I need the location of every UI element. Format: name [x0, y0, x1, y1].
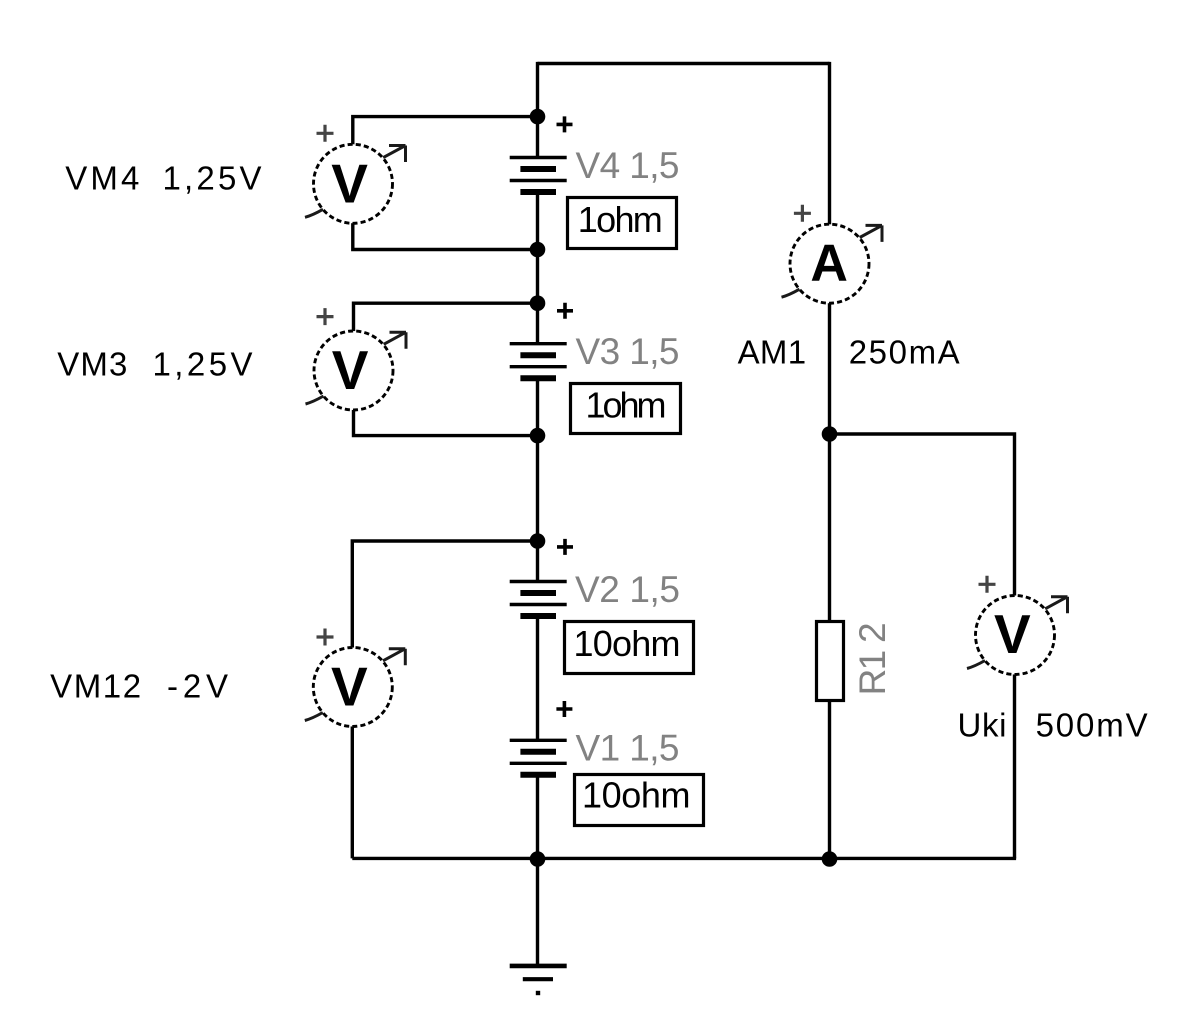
battery V3 plus polarity mark [557, 303, 573, 319]
wire Uki meter to bottom [1013, 670, 1016, 859]
battery V4 plus polarity mark [557, 116, 573, 132]
wire R1 to bottom [828, 700, 831, 859]
svg-text:AM1: AM1 [738, 334, 807, 371]
svg-text:-2V: -2V [167, 667, 228, 704]
svg-text:VM3: VM3 [57, 346, 127, 383]
svg-text:R1 2: R1 2 [852, 622, 893, 695]
junction node battery chain to bottom rail [530, 851, 546, 867]
svg-text:V: V [332, 339, 369, 401]
voltmeter VM12 [305, 629, 406, 727]
wire ammeter to R1 [828, 299, 831, 622]
resistor R1 [817, 622, 844, 701]
voltmeter Uki [967, 576, 1068, 675]
wire VM4 top loop [353, 117, 538, 150]
svg-text:VM12: VM12 [50, 667, 141, 704]
svg-text:VM4: VM4 [65, 159, 139, 196]
wire battery chain V2 to V1 [536, 616, 539, 740]
battery V3 internal resistance box [571, 384, 681, 434]
svg-text:V3 1,5: V3 1,5 [576, 331, 680, 372]
svg-text:1ohm: 1ohm [586, 385, 667, 426]
junction node ammeter to R1 and Uki branch [822, 426, 838, 442]
battery V2 internal resistance box [565, 622, 694, 674]
wire battery chain V1 to ground [536, 775, 539, 966]
wire branch to Uki meter [830, 434, 1015, 601]
svg-text:V: V [331, 153, 368, 215]
svg-text:V2 1,5: V2 1,5 [575, 569, 680, 610]
svg-text:A: A [810, 235, 848, 293]
ground [510, 966, 567, 979]
ammeter AM1 [782, 205, 883, 303]
svg-text:10ohm: 10ohm [574, 623, 681, 664]
battery V4 internal resistance box [568, 198, 677, 249]
svg-text:1,25V: 1,25V [163, 159, 262, 196]
junction node at V4 plus terminal [530, 109, 546, 125]
junction node at V4 minus terminal [530, 242, 546, 258]
svg-text:500mV: 500mV [1036, 706, 1148, 743]
wire bottom horizontal [352, 857, 1016, 860]
wire VM3 top loop [354, 303, 538, 336]
battery V1 internal resistance box [575, 775, 704, 826]
battery V3 [510, 344, 567, 379]
voltmeter VM3 [306, 308, 407, 410]
svg-text:10ohm: 10ohm [582, 774, 691, 815]
battery V1 plus polarity mark [556, 701, 572, 717]
junction node at V3 plus terminal [530, 295, 546, 311]
svg-text:V1 1,5: V1 1,5 [576, 728, 680, 769]
svg-text:Uki: Uki [958, 706, 1007, 743]
svg-text:1ohm: 1ohm [578, 199, 663, 240]
battery V2 [510, 582, 567, 617]
battery V1 [510, 740, 567, 775]
wire VM12 bottom stub [351, 722, 354, 858]
wire VM4 bottom loop [353, 220, 538, 250]
voltmeter VM4 [305, 125, 406, 224]
wire right vertical top to ammeter [828, 62, 831, 229]
svg-text:V: V [331, 656, 368, 718]
svg-text:V: V [994, 603, 1031, 665]
wire VM3 bottom loop [354, 406, 538, 436]
junction node at V3 minus terminal [530, 428, 546, 444]
svg-text:250mA: 250mA [849, 334, 960, 371]
junction node R1 to bottom rail [822, 851, 838, 867]
wire battery chain vertical top segment [536, 62, 539, 158]
svg-text:1,25V: 1,25V [153, 346, 253, 383]
battery V4 [510, 158, 567, 193]
junction node at V2 plus terminal [530, 533, 546, 549]
wire battery chain V4 to V3 [536, 192, 539, 344]
wire VM12 top loop [352, 541, 537, 653]
battery V2 plus polarity mark [557, 539, 573, 555]
svg-text:V4 1,5: V4 1,5 [576, 145, 680, 186]
wire battery chain V3 to V2 [536, 378, 539, 581]
wire top horizontal from battery chain to ammeter branch [538, 62, 830, 65]
